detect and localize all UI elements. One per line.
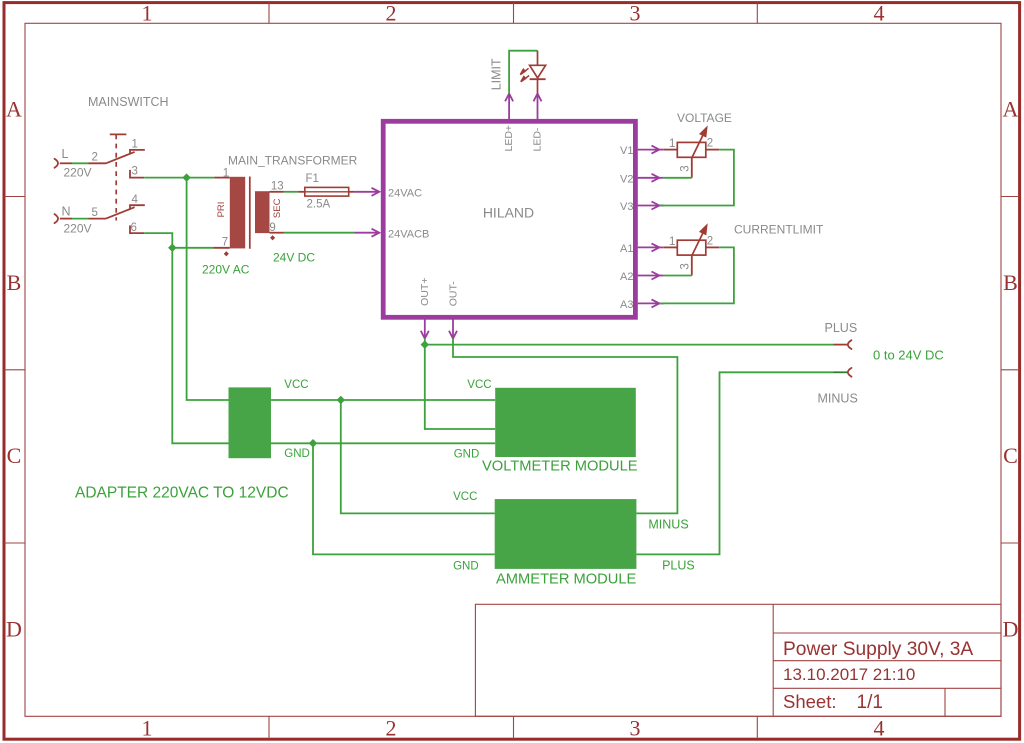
transformer TR1 polarity dot secondary: [270, 235, 275, 240]
transformer TR1 polarity dot primary: [224, 251, 229, 256]
title block row line 3: [773, 687, 1001, 689]
switch pole2 contact pin 6: [130, 225, 144, 233]
frame column divider bottom 3/4: [756, 716, 758, 739]
LED D1 cathode bar: [530, 78, 546, 80]
wire net PLUS from OUT+: [425, 339, 834, 345]
svg-text:MINUS: MINUS: [648, 518, 688, 532]
potentiometer R1 body: [677, 142, 706, 157]
op-amp module U1 HILAND box: [383, 121, 635, 317]
svg-text:A: A: [6, 97, 22, 122]
switch linkage T bar: [110, 133, 127, 135]
transformer TR1 core line: [249, 177, 251, 249]
svg-text:2: 2: [92, 152, 98, 164]
connector output MINUS stub: [834, 371, 848, 373]
potentiometer R1 pin 1 stub: [664, 149, 678, 151]
svg-text:1: 1: [223, 167, 229, 179]
title block row line 1: [773, 632, 1001, 634]
U1 pin LED+ stub: [505, 94, 513, 119]
junction GND: [309, 439, 317, 447]
junction OUT+/PLUS: [421, 340, 429, 348]
svg-text:24VACB: 24VACB: [388, 228, 429, 240]
title block vertical divider: [772, 604, 774, 716]
ammeter module box: [495, 499, 637, 569]
transformer TR1 pin 9 stub: [270, 232, 284, 234]
title block row line 2: [773, 660, 1001, 662]
frame column divider bottom 1/2: [268, 716, 270, 739]
junction pole1/adapter: [182, 173, 190, 181]
frame row divider left B/C: [4, 369, 25, 371]
svg-text:2: 2: [707, 235, 713, 247]
svg-text:220V: 220V: [64, 222, 92, 236]
wire LED+ up and over: [509, 51, 537, 94]
U1 pin LED- stub: [534, 94, 542, 119]
wire V2 to R1 pin 3: [664, 177, 692, 179]
svg-text:Power Supply 30V, 3A: Power Supply 30V, 3A: [783, 639, 973, 660]
svg-text:CURRENTLIMIT: CURRENTLIMIT: [734, 223, 824, 237]
svg-text:A3: A3: [620, 299, 633, 311]
svg-text:A2: A2: [620, 271, 633, 283]
svg-text:MAIN_TRANSFORMER: MAIN_TRANSFORMER: [228, 153, 358, 167]
LED D1 emission arrow 2: [521, 76, 529, 82]
svg-text:LED+: LED+: [503, 125, 515, 152]
LED D1 cathode lead: [537, 79, 539, 93]
wire adapter GND out: [271, 442, 495, 444]
switch linkage dashed line: [115, 134, 117, 220]
wire net L-switched drop to adapter VCC: [187, 178, 229, 400]
svg-text:OUT+: OUT+: [419, 278, 431, 306]
svg-text:2: 2: [386, 1, 397, 26]
connector J-L input: [55, 159, 59, 168]
transformer TR1 primary winding: [230, 177, 245, 249]
frame row divider right C/D: [1001, 542, 1020, 544]
svg-text:9: 9: [269, 222, 275, 234]
svg-text:GND: GND: [284, 448, 310, 460]
svg-text:VCC: VCC: [284, 379, 308, 391]
connector output PLUS stub: [834, 344, 848, 346]
svg-text:2.5A: 2.5A: [307, 199, 331, 211]
svg-text:A1: A1: [620, 243, 633, 255]
svg-text:A: A: [1003, 97, 1019, 122]
potentiometer R2 body: [677, 240, 706, 255]
frame column divider top 1/2: [268, 3, 270, 24]
svg-text:OUT-: OUT-: [447, 281, 459, 307]
svg-text:3: 3: [630, 1, 641, 26]
wire A2 to R2 pin 3: [664, 275, 692, 277]
title block sheet cell divider: [944, 688, 946, 716]
svg-text:3: 3: [132, 165, 138, 177]
svg-text:4: 4: [874, 1, 885, 26]
svg-text:1: 1: [132, 138, 138, 150]
fuse F1 right stub: [349, 191, 355, 193]
svg-text:4: 4: [874, 716, 885, 741]
connector output PLUS head: [848, 340, 852, 349]
svg-text:7: 7: [222, 236, 228, 248]
switch pole1 contact pin 3: [130, 170, 144, 178]
frame row divider right B/C: [1001, 369, 1020, 371]
svg-text:F1: F1: [306, 173, 319, 185]
svg-text:AMMETER MODULE: AMMETER MODULE: [496, 571, 637, 587]
svg-text:SEC: SEC: [272, 198, 283, 218]
svg-text:1/1: 1/1: [857, 692, 883, 713]
LED D1 anode lead: [537, 51, 539, 66]
svg-text:VCC: VCC: [467, 379, 491, 391]
svg-text:5: 5: [92, 207, 98, 219]
title block outline: [475, 604, 1001, 716]
connector J-N input: [55, 214, 59, 223]
potentiometer R2 pin 1 stub: [664, 246, 678, 248]
transformer TR1 pin 1 stub: [215, 177, 230, 179]
fuse F1 body: [305, 187, 349, 196]
wire transformer pin9 to HILAND 24VACB: [284, 232, 355, 234]
svg-text:PRI: PRI: [216, 202, 227, 218]
svg-text:V1: V1: [620, 145, 633, 157]
junction VCC: [337, 396, 345, 404]
connector output MINUS head: [848, 368, 852, 377]
svg-text:VCC: VCC: [453, 491, 477, 503]
svg-text:24VAC: 24VAC: [388, 187, 422, 199]
frame row divider left A/B: [4, 196, 25, 198]
voltmeter module box: [495, 388, 636, 457]
svg-text:2: 2: [386, 716, 397, 741]
U1 pin V3 stub: [638, 202, 664, 210]
svg-text:24V DC: 24V DC: [273, 251, 315, 265]
U1 pin 24VACB stub: [354, 229, 379, 237]
switch pole2 contact pin 4: [130, 205, 145, 209]
wire net MINUS from OUT- to ammeter: [453, 339, 677, 514]
junction pole2/adapter: [168, 244, 176, 252]
svg-text:D: D: [1003, 616, 1019, 641]
wire R2 pin2 loop to A3: [660, 247, 734, 303]
svg-text:C: C: [7, 443, 22, 468]
svg-text:2: 2: [707, 138, 713, 150]
U1 pin V2 stub: [638, 174, 664, 182]
frame column divider top 3/4: [756, 3, 758, 24]
potentiometer R2 pin 3 stub: [691, 255, 693, 275]
svg-text:1: 1: [142, 716, 153, 741]
wire L to switch pivot: [60, 162, 72, 164]
svg-text:GND: GND: [454, 449, 480, 461]
svg-text:220V AC: 220V AC: [202, 263, 250, 277]
svg-text:PLUS: PLUS: [662, 559, 695, 573]
wire VCC drop to ammeter: [341, 400, 495, 513]
svg-text:L: L: [62, 147, 69, 161]
frame row divider right A/B: [1001, 196, 1020, 198]
switch pole1 lever: [106, 152, 135, 163]
wire R1 pin2 loop to V3: [660, 150, 734, 206]
potentiometer R1 pin 3 stub: [691, 157, 693, 178]
svg-text:13.10.2017 21:10: 13.10.2017 21:10: [783, 665, 915, 684]
svg-text:6: 6: [131, 222, 137, 234]
svg-text:B: B: [7, 270, 22, 295]
LED D1 triangle: [530, 65, 546, 78]
potentiometer R2 wiper arrow: [692, 226, 707, 256]
U1 pin 24VAC stub: [354, 188, 379, 196]
wire N to switch pivot: [60, 218, 72, 220]
svg-text:C: C: [1003, 443, 1018, 468]
transformer TR1 pin 13 stub: [270, 191, 284, 193]
wire net L-switched pole1 out to transformer pin1: [144, 177, 214, 179]
U1 pin A3 stub: [638, 299, 664, 307]
switch pole2 lever: [106, 207, 135, 218]
transformer TR1 secondary winding: [255, 191, 270, 233]
svg-text:V3: V3: [620, 201, 633, 213]
potentiometer R2 pin 2 stub: [706, 246, 719, 248]
switch pole1 contact pin 1: [130, 150, 145, 154]
frame column divider bottom 2/3: [513, 716, 515, 739]
svg-text:V2: V2: [620, 173, 633, 185]
potentiometer R1 wiper arrow: [692, 128, 707, 158]
potentiometer R1 pin 2 stub: [706, 149, 719, 151]
svg-text:PLUS: PLUS: [825, 321, 858, 335]
svg-text:LIMIT: LIMIT: [490, 58, 504, 90]
wire GND drop to ammeter: [313, 443, 495, 554]
fuse F1 mid line: [305, 191, 349, 193]
svg-text:1: 1: [142, 1, 153, 26]
svg-text:220V: 220V: [64, 166, 92, 180]
LED D1 emission arrow 1: [520, 68, 528, 74]
frame column divider top 2/3: [513, 3, 515, 24]
svg-text:HILAND: HILAND: [483, 205, 534, 221]
wire transformer pin13 to fuse: [284, 191, 299, 193]
frame row divider left C/D: [4, 542, 25, 544]
wire net N-switched pole2 out: [144, 233, 213, 248]
svg-text:0 to 24V DC: 0 to 24V DC: [873, 348, 944, 363]
wire ammeter PLUS to MINUS connector: [636, 372, 833, 554]
U1 pin A2 stub: [638, 272, 664, 280]
svg-text:3: 3: [630, 716, 641, 741]
wire adapter VCC out: [271, 399, 495, 401]
svg-text:LED-: LED-: [532, 127, 544, 151]
svg-text:N: N: [62, 205, 71, 219]
svg-text:1: 1: [669, 138, 675, 150]
U1 pin V1 stub: [638, 146, 664, 154]
U1 pin A1 stub: [638, 243, 664, 251]
adapter PSU box: [229, 387, 272, 458]
svg-text:13: 13: [271, 180, 284, 192]
svg-text:VOLTMETER MODULE: VOLTMETER MODULE: [482, 459, 638, 475]
svg-text:4: 4: [132, 194, 139, 206]
svg-text:3: 3: [680, 165, 692, 171]
svg-text:MINUS: MINUS: [818, 392, 858, 406]
svg-text:3: 3: [680, 263, 692, 269]
U1 pin OUT+ stub: [421, 319, 429, 338]
svg-text:1: 1: [669, 236, 675, 248]
svg-text:VOLTAGE: VOLTAGE: [677, 111, 732, 125]
svg-text:B: B: [1003, 270, 1018, 295]
U1 pin OUT- stub: [449, 319, 457, 338]
transformer TR1 pin 7 stub: [213, 247, 230, 249]
wire net N-switched drop to adapter GND: [172, 248, 228, 443]
svg-text:D: D: [6, 616, 22, 641]
wire PLUS drop to voltmeter sense: [425, 345, 495, 429]
svg-text:MAINSWITCH: MAINSWITCH: [88, 95, 169, 109]
svg-text:ADAPTER 220VAC TO 12VDC: ADAPTER 220VAC TO 12VDC: [75, 485, 289, 502]
svg-text:GND: GND: [453, 561, 479, 573]
fuse F1 left stub: [299, 191, 305, 193]
svg-text:Sheet:: Sheet:: [783, 691, 837, 712]
